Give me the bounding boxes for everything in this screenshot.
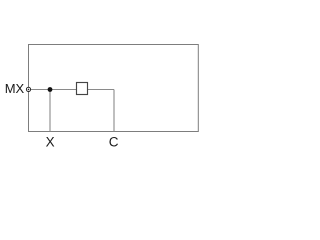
component square	[77, 83, 88, 95]
wire junction to square	[50, 89, 77, 91]
wire C vertical	[113, 90, 115, 132]
wire square to corner	[88, 89, 115, 91]
svg-text:C: C	[109, 134, 119, 149]
terminal MX circle	[26, 87, 30, 91]
wire MX to junction	[31, 89, 51, 91]
wire X vertical	[49, 90, 51, 132]
junction dot	[48, 87, 53, 92]
terminal MX center dot	[28, 89, 30, 91]
svg-text:MX: MX	[5, 81, 25, 96]
block outline	[29, 45, 199, 132]
svg-text:X: X	[46, 134, 55, 149]
